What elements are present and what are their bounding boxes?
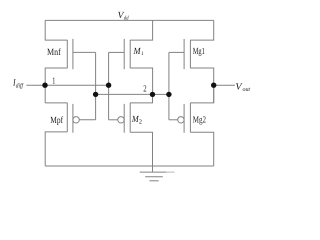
svg-text:1: 1 — [141, 51, 144, 57]
wire Mnf source to node 1 — [45, 68, 67, 103]
wire M2 drain to node 2 — [130, 94, 152, 103]
wire vertical Mg1-gate to Mg2-gate — [168, 52, 170, 119]
transistor Mg2 gate bar — [183, 104, 185, 133]
transistor M1 channel bar — [129, 40, 131, 68]
transistor Mpf channel bar — [66, 103, 68, 132]
transistor Mg2 gate circle — [178, 117, 184, 123]
svg-text:diff: diff — [16, 83, 24, 90]
transistor M2 gate bar — [123, 104, 125, 133]
wire Mg1 drain to Vdd — [190, 20, 213, 40]
wire M1 drain to Vdd — [130, 20, 152, 40]
svg-text:dd: dd — [124, 15, 129, 21]
junction dot node 1 at Mnf/Mpf sources — [42, 83, 47, 88]
ground bar 2 — [145, 176, 163, 178]
wire M1 gate lead — [109, 51, 125, 53]
svg-text:out: out — [243, 86, 251, 93]
transistor Mpf gate circle — [73, 117, 79, 123]
ground rail (bottom wire) — [45, 165, 214, 167]
junction dot node 1 at M1/M2 gate column — [106, 83, 111, 88]
transistor M1 gate bar — [123, 39, 125, 69]
transistor Mg2 channel bar — [189, 103, 191, 133]
svg-text:1: 1 — [52, 75, 55, 85]
ground bar 1 — [140, 171, 166, 173]
wire vertical Mnf-gate to Mpf-gate — [95, 52, 97, 119]
wire Mpf drain to ground rail — [45, 132, 67, 166]
junction dot node 2 at Mg gate column — [166, 92, 171, 97]
wire Mg1 source to Vout node — [190, 68, 213, 103]
junction dot node 2 at M1/M2 drains — [150, 92, 155, 97]
transistor Mg1 channel bar — [189, 40, 191, 68]
wire node 1 horizontal (Idiff input) — [26, 84, 108, 86]
svg-text:Mg2: Mg2 — [193, 115, 206, 125]
svg-text:2: 2 — [139, 119, 142, 126]
transistor M2 channel bar — [129, 103, 131, 133]
wire Mnf drain to Vdd — [45, 20, 67, 40]
transistor Mpf gate bar — [72, 104, 74, 133]
wire Vout stub — [214, 84, 235, 86]
wire Mg2 drain to Vout node — [190, 85, 213, 103]
svg-text:Mnf: Mnf — [47, 48, 61, 58]
transistor Mnf channel bar — [66, 40, 68, 68]
transistor Mnf gate bar — [72, 39, 74, 69]
svg-text:Mg1: Mg1 — [193, 47, 205, 57]
Vdd rail — [45, 19, 214, 21]
transistor M2 gate circle — [118, 117, 124, 123]
wire M1 source to node 2 — [130, 68, 152, 94]
wire Mnf gate lead — [73, 51, 96, 53]
wire Mg2 source to ground rail — [190, 132, 213, 166]
transistor Mg1 gate bar — [183, 39, 185, 69]
wire M2 gate lead — [109, 119, 118, 121]
junction dot Vout node — [211, 83, 216, 88]
svg-text:2: 2 — [143, 84, 147, 94]
wire M2 source to ground symbol — [130, 132, 152, 172]
svg-text:Mpf: Mpf — [50, 116, 63, 126]
ground bar 3 — [149, 180, 158, 182]
wire Mg1 gate lead — [169, 51, 184, 53]
wire node 2 horizontal — [96, 93, 169, 95]
wire Mg2 gate lead — [169, 119, 178, 121]
wire vertical M1-gate to M2-gate — [108, 52, 110, 119]
junction dot node 2 at Mnf/Mpf gate column — [93, 92, 98, 97]
wire Mpf gate lead — [79, 119, 95, 121]
wire Mpf source to node 1 — [45, 102, 67, 104]
